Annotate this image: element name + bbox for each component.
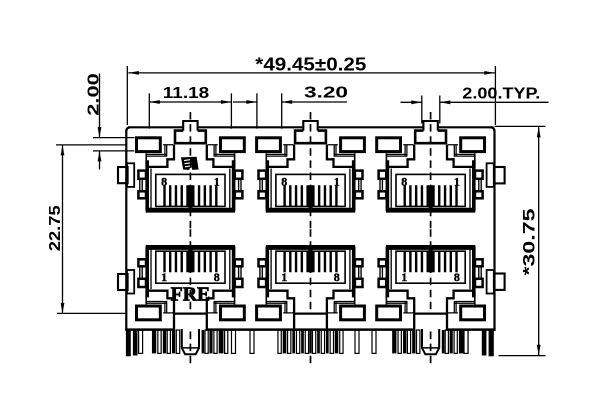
shield body right edge	[493, 131, 495, 331]
svg-text:1: 1	[161, 270, 167, 284]
opening box of jack J6 (bottom-right)	[387, 247, 473, 298]
svg-text:*30.75: *30.75	[521, 209, 539, 276]
dimension 22.75	[56, 144, 126, 146]
bottom pedestal of jack J6	[414, 314, 447, 331]
svg-text:FRE: FRE	[171, 284, 211, 305]
shield body bottom edge	[125, 328, 495, 331]
centerline extension of jack J5	[310, 332, 312, 365]
centerline extension of jack J6	[430, 332, 432, 365]
svg-text:11.18: 11.18	[163, 85, 210, 102]
right LED window of jack J5 (bottom-middle)	[341, 306, 365, 320]
opening box of jack J5 (bottom-middle)	[267, 247, 353, 298]
contact fingers of jack J2 (top-middle)	[285, 185, 337, 206]
shoulder steps of jack J5 (bottom-middle)	[267, 291, 353, 313]
right LED window of jack J3 (top-right)	[461, 138, 485, 152]
side ears of jack J3 (top-right)	[379, 171, 387, 179]
bottom pedestal of jack J4	[174, 314, 207, 331]
stray white pins between ports	[139, 330, 143, 353]
centerline of jack J6 (bottom-right)	[430, 229, 432, 346]
svg-text:2.00: 2.00	[86, 73, 103, 116]
svg-text:1: 1	[334, 175, 340, 189]
svg-text:8: 8	[454, 270, 460, 284]
shoulder steps of jack J1 (top-left)	[147, 145, 233, 167]
right lower side tab	[487, 270, 494, 294]
step shadow lines of jack J6 (bottom-right)	[387, 302, 414, 313]
step shadow lines of jack J4 (bottom-left)	[146, 302, 173, 313]
left LED window of jack J6 (bottom-right)	[377, 306, 401, 320]
left upper side tab	[127, 163, 134, 187]
shoulder steps of jack J4 (bottom-left)	[147, 291, 233, 313]
right LED window of jack J6 (bottom-right)	[461, 306, 485, 320]
centerline of jack J5 (bottom-middle)	[310, 229, 312, 346]
right upper side tab	[487, 163, 494, 187]
left LED window of jack J4 (bottom-left)	[137, 306, 161, 320]
step shadow lines of jack J3 (top-right)	[387, 145, 414, 156]
opening box of jack J2 (top-middle)	[267, 160, 353, 211]
shield body left edge	[125, 131, 127, 331]
svg-text:22.75: 22.75	[47, 205, 64, 251]
left shield legs	[126, 330, 131, 356]
shoulder steps of jack J3 (top-right)	[387, 145, 473, 167]
dimension 2.00 (left)	[93, 137, 134, 139]
contact fingers of jack J4 (bottom-left)	[165, 251, 217, 272]
PCB latch tab of jack J1 (top-left)	[183, 121, 197, 131]
contact pins of jack J5	[305, 330, 308, 353]
centerline of jack J3 (top-right)	[430, 112, 432, 229]
svg-text:8: 8	[161, 175, 167, 189]
left LED window of jack J3 (top-right)	[377, 138, 401, 152]
svg-text:*49.45±0.25: *49.45±0.25	[255, 54, 366, 75]
centerline of jack J4 (bottom-left)	[189, 229, 191, 346]
contact fingers of jack J1 (top-left)	[165, 185, 217, 206]
svg-text:3.20: 3.20	[304, 84, 348, 101]
shield body top edge	[128, 126, 494, 128]
svg-text:1: 1	[281, 270, 287, 284]
centerline of jack J2 (top-middle)	[310, 112, 312, 229]
right LED window of jack J4 (bottom-left)	[221, 306, 245, 320]
contact pins of jack J4	[158, 330, 161, 353]
PCB latch tab of jack J3 (top-right)	[423, 121, 437, 131]
svg-text:8: 8	[214, 270, 220, 284]
dimension 11.18	[148, 93, 150, 128]
opening box of jack J1 (top-left)	[147, 160, 233, 211]
side ears of jack J2 (top-middle)	[259, 171, 267, 179]
right shield legs	[482, 330, 487, 356]
side ears of jack J1 (top-left)	[138, 171, 146, 179]
svg-text:8: 8	[281, 175, 287, 189]
centerline of jack J1 (top-left)	[189, 112, 191, 229]
side ears of jack J4 (bottom-left)	[138, 279, 146, 287]
svg-text:8: 8	[401, 175, 407, 189]
svg-text:2.00.TYP.: 2.00.TYP.	[462, 85, 540, 102]
dimension *30.75	[495, 125, 546, 127]
center pedestal of jack J1 (top-left)	[175, 131, 206, 144]
left LED window of jack J2 (top-middle)	[257, 138, 281, 152]
right LED window of jack J1 (top-left)	[221, 138, 245, 152]
svg-text:8: 8	[334, 270, 340, 284]
contact pins of jack J6	[398, 330, 401, 353]
centerline extension of jack J4	[189, 332, 191, 365]
opening box of jack J3 (top-right)	[387, 160, 473, 211]
opening box of jack J4 (bottom-left)	[147, 247, 233, 298]
center post of jack J4	[182, 329, 199, 354]
left lower side tab	[127, 270, 134, 294]
dimension *49.45±0.25	[126, 66, 128, 125]
contact fingers of jack J6 (bottom-right)	[405, 251, 457, 272]
svg-text:1: 1	[454, 175, 460, 189]
PCB latch tab of jack J2 (top-middle)	[303, 121, 317, 131]
step shadow lines of jack J5 (bottom-middle)	[267, 302, 294, 313]
brand emblem on jack J1	[181, 157, 199, 170]
side ears of jack J5 (bottom-middle)	[259, 279, 267, 287]
svg-text:1: 1	[401, 270, 407, 284]
left LED window of jack J5 (bottom-middle)	[257, 306, 281, 320]
shoulder steps of jack J2 (top-middle)	[267, 145, 353, 167]
step shadow lines of jack J1 (top-left)	[146, 145, 173, 156]
step shadow lines of jack J2 (top-middle)	[267, 145, 294, 156]
center post of jack J6	[422, 329, 439, 354]
dimension 2.00.TYP.	[421, 96, 423, 124]
side ears of jack J6 (bottom-right)	[379, 279, 387, 287]
contact fingers of jack J5 (bottom-middle)	[285, 251, 337, 272]
center pedestal of jack J3 (top-right)	[415, 131, 446, 144]
bottom pedestal of jack J5	[294, 314, 327, 331]
svg-text:1: 1	[214, 175, 220, 189]
center pedestal of jack J2 (top-middle)	[295, 131, 326, 144]
dimension 3.20	[256, 93, 258, 128]
contact fingers of jack J3 (top-right)	[405, 185, 457, 206]
shoulder steps of jack J6 (bottom-right)	[387, 291, 473, 313]
left LED window of jack J1 (top-left)	[137, 138, 161, 152]
right LED window of jack J2 (top-middle)	[341, 138, 365, 152]
